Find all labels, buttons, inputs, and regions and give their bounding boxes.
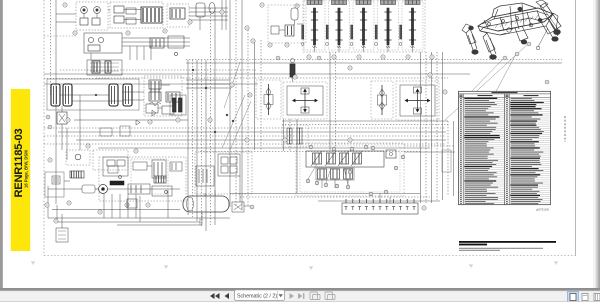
valve section S3 pilot spool (351, 25, 353, 39)
pump PL2 (75, 154, 81, 160)
schematic border frame bottom (44, 255, 576, 257)
wire (111, 194, 113, 218)
node (205, 87, 207, 89)
callout (250, 205, 254, 209)
wire (167, 190, 169, 218)
wire (241, 0, 243, 210)
main control valve bank enclosure (303, 0, 425, 52)
wire (48, 188, 82, 190)
valve VL5 (152, 186, 172, 196)
valve section S2 spool (338, 8, 340, 45)
gauge G2 (98, 37, 103, 42)
wire (56, 205, 58, 222)
aux valve AV1 actuator arrow (311, 151, 322, 166)
wire (204, 193, 206, 196)
manifold port (379, 199, 381, 203)
node (375, 43, 378, 46)
layout two-page button (594, 294, 600, 301)
callout (268, 43, 272, 47)
toolbar page dropdown (235, 290, 285, 301)
valve group enclosure V2 (110, 2, 163, 28)
valve section S1 enclosure (304, 1, 325, 50)
wire (44, 143, 446, 145)
callout (283, 138, 287, 142)
wire (230, 193, 420, 195)
wire (189, 15, 228, 17)
aux valve AV1 (313, 153, 322, 164)
valve VM1 (146, 104, 158, 113)
registration mark (309, 267, 313, 270)
wire (404, 151, 455, 153)
wire (240, 196, 430, 198)
schematic border frame left (43, 0, 45, 256)
callout (285, 43, 289, 47)
wire (453, 121, 455, 196)
valve VL8 (170, 162, 182, 171)
strainer ST1 (52, 176, 60, 184)
valve section S5 spring (411, 46, 415, 48)
orifice O2 (119, 176, 122, 179)
leader line (230, 101, 251, 150)
accumulator AC3 (109, 84, 118, 106)
machine illustration - loader frame isometric view (462, 0, 561, 59)
valve section S5 pilot spool (400, 25, 402, 39)
leader line (470, 54, 516, 140)
wire (199, 17, 201, 30)
wire (122, 99, 144, 101)
axle motor MT2 inner valve (414, 108, 422, 114)
valve VC2 (196, 166, 214, 186)
wire (247, 30, 249, 205)
valve section S3 spool (362, 8, 364, 45)
wire (58, 131, 446, 133)
schematic note text block (459, 241, 556, 251)
valve VC1 (218, 154, 240, 176)
aux valve AV2 (327, 153, 336, 164)
check valve V3 (114, 6, 124, 13)
steering metering unit MU1 metering spool (268, 84, 270, 115)
leader line (224, 62, 240, 108)
node (232, 120, 234, 122)
pilot manifold body (306, 151, 384, 167)
wire (127, 194, 129, 218)
wire (425, 52, 427, 203)
registration mark (31, 262, 35, 265)
callout (324, 183, 328, 187)
leader line (326, 168, 331, 183)
callout (317, 56, 321, 60)
valve VL2 (133, 162, 147, 170)
wire (186, 87, 230, 89)
wire (200, 151, 420, 153)
registration mark (469, 265, 473, 268)
callout (332, 147, 336, 151)
manifold port (365, 199, 367, 203)
callout (371, 146, 375, 150)
wire (225, 0, 227, 30)
node (214, 131, 216, 133)
node (301, 43, 304, 46)
accumulator group frame (47, 79, 139, 110)
axle motor MT2 enclosure (396, 81, 439, 120)
filter element F1b (105, 61, 111, 73)
wire (321, 179, 323, 188)
accumulator AC1 (51, 84, 60, 106)
wire (189, 11, 228, 13)
wire (363, 45, 365, 52)
wire (64, 180, 70, 182)
wire (239, 176, 241, 202)
manifold port (399, 199, 401, 203)
valve section S4 spool (387, 8, 389, 45)
wire (186, 79, 230, 81)
steering motor MT1 enclosure (283, 82, 327, 119)
valve CE2 spool B (297, 128, 302, 144)
valve VL3 (152, 160, 166, 178)
relief valve RV2 gauge (389, 152, 392, 155)
wire (76, 139, 446, 141)
callout (146, 203, 150, 207)
wire (50, 0, 52, 96)
callout (346, 185, 350, 189)
callout (176, 118, 180, 122)
valve section S3 top block (356, 0, 371, 5)
wire (338, 45, 340, 52)
callout (515, 52, 519, 56)
valve section S1 spool (313, 8, 315, 45)
valve section S4 enclosure (378, 1, 399, 50)
node (326, 43, 329, 46)
callout (163, 29, 167, 33)
aux valve AV4 (353, 153, 362, 164)
aux valve lower AVL1 (318, 169, 327, 179)
callout (86, 144, 90, 148)
wire (254, 40, 256, 150)
big system enclosure BL3 (99, 157, 186, 201)
wire (289, 119, 291, 151)
wire (279, 29, 285, 31)
valve VM2 (162, 106, 174, 114)
wire (57, 221, 200, 223)
toolbar print button (disabled) (325, 292, 335, 300)
valve CE2 spool A (287, 128, 292, 144)
callout (384, 190, 388, 194)
wire (199, 218, 201, 225)
lower valve row body (316, 168, 354, 180)
end cap block (442, 150, 451, 172)
steering motor MT1 cross port arrows (295, 100, 315, 102)
callout (293, 75, 297, 79)
callout (245, 138, 249, 142)
callout (369, 192, 373, 196)
valve section S2 pilot spool (326, 25, 328, 39)
wire (292, 77, 294, 82)
wire (201, 212, 203, 225)
wire (44, 73, 470, 75)
wire (61, 214, 63, 228)
valve section S5 top block (405, 0, 420, 5)
valve section S3 spring (362, 46, 366, 48)
component block CB1 (170, 95, 186, 115)
part number sticker (11, 89, 30, 251)
wire (61, 106, 63, 112)
wire (189, 7, 228, 9)
filter FL1 (56, 228, 68, 242)
node (350, 43, 353, 46)
callout (332, 55, 336, 59)
wire (161, 84, 170, 86)
callout (46, 115, 50, 119)
wire (297, 23, 303, 25)
aux valve AV2 actuator arrow (325, 151, 336, 166)
wire (122, 41, 190, 43)
pilot solenoid valve PS1 port (291, 59, 295, 63)
wire (107, 188, 180, 190)
pilot valve enclosure CBL1 (195, 152, 252, 194)
wire (420, 52, 422, 203)
wire (158, 107, 162, 109)
layout single-page button (active) (568, 292, 579, 302)
valve section S2 spring (337, 46, 341, 48)
callout (126, 31, 130, 35)
pump P1 (81, 7, 88, 14)
callout (295, 4, 299, 8)
callout (348, 138, 352, 142)
wire (47, 204, 49, 218)
wire (83, 14, 85, 19)
svg-text:16 Page, B/W, DSM: 16 Page, B/W, DSM (24, 150, 29, 188)
callout (251, 39, 255, 43)
wire (221, 0, 223, 30)
wire (214, 8, 216, 225)
valve CE1a (285, 25, 294, 36)
callout (357, 55, 361, 59)
callout (276, 56, 280, 60)
brake metering unit MU2 body (378, 95, 387, 105)
wire (129, 46, 131, 60)
valve section S2 enclosure (329, 1, 350, 50)
pilot valve V4 (170, 8, 185, 19)
aux valve AV3 (340, 153, 349, 164)
callout (364, 145, 368, 149)
callout (428, 73, 432, 77)
wire (61, 124, 63, 150)
wire (72, 100, 123, 102)
wire (186, 62, 562, 64)
callout (73, 31, 77, 35)
valve VC3 (232, 202, 244, 212)
callout (48, 125, 52, 129)
manifold port (372, 199, 374, 203)
check valve CV2 (152, 110, 156, 116)
valve section S4 top block (381, 0, 396, 5)
svg-text:Schematic (2 / 2): Schematic (2 / 2) (237, 293, 277, 299)
callout (245, 26, 249, 30)
wire (122, 45, 190, 47)
callout (348, 66, 352, 70)
pump P2 (94, 7, 101, 14)
wire (431, 52, 433, 203)
heat exchanger HX1 (70, 171, 84, 178)
callout (350, 147, 354, 151)
wire (318, 200, 440, 202)
callout (66, 118, 70, 122)
valve enclosure BL4 (131, 159, 168, 194)
wire (347, 179, 349, 188)
node (192, 69, 194, 71)
callout (527, 42, 531, 46)
leader line (445, 44, 528, 120)
valve section S3 enclosure (353, 1, 374, 50)
steering metering unit MU1 body (264, 95, 273, 105)
toolbar first-page button (210, 293, 220, 299)
wire (135, 194, 137, 218)
control valve enclosure CV1 (144, 76, 182, 116)
wire (74, 119, 188, 121)
wire (282, 124, 448, 126)
callout (248, 93, 252, 97)
pump enclosure PL1 (45, 172, 64, 197)
callout (503, 56, 507, 60)
toolbar next-page button (disabled) (290, 293, 295, 299)
small block SB2 (120, 126, 130, 136)
callout (54, 219, 58, 223)
wire (122, 91, 144, 93)
wire (282, 120, 448, 122)
valve section S4 pilot spool (375, 25, 377, 39)
orifice O1 (174, 52, 177, 55)
manifold port (406, 199, 408, 203)
leader line (222, 95, 245, 148)
pilot supply enclosure CE1 (268, 5, 306, 43)
callout (208, 118, 212, 122)
callout (45, 203, 49, 207)
accumulator AC2 (63, 84, 72, 106)
wire (235, 0, 237, 205)
axle motor MT2 cross port arrows (408, 100, 428, 102)
manifold port (352, 199, 354, 203)
axle motor MT2 body (400, 85, 435, 116)
wire (122, 37, 190, 39)
auxiliary valve group enclosure (296, 143, 404, 196)
enclosure BL2 (93, 150, 128, 170)
brake metering unit MU2 enclosure (371, 81, 393, 119)
callout (406, 55, 410, 59)
wire (387, 45, 389, 52)
solenoid S1 (166, 92, 180, 102)
callout (335, 184, 339, 188)
callout (220, 10, 224, 14)
callout (348, 170, 352, 174)
small valve VL6 (127, 199, 137, 208)
valve CE1b (271, 26, 279, 34)
wire (44, 35, 76, 37)
wire (379, 193, 381, 203)
valve VL7 (108, 166, 118, 173)
manifold port (359, 199, 361, 203)
leader line (463, 57, 505, 100)
leader line (308, 164, 317, 179)
valve V5 (88, 45, 100, 51)
valve section S4 spring (386, 46, 390, 48)
callout (148, 120, 152, 124)
wire (44, 135, 446, 137)
wire (201, 60, 203, 226)
wire (150, 46, 152, 60)
valve V9 (168, 36, 184, 48)
valve section S1 pilot spool (302, 25, 304, 39)
schematic components table (459, 91, 551, 204)
accumulator CE1c (291, 8, 298, 20)
valve V8 (150, 38, 164, 48)
callout (63, 3, 67, 7)
wire (329, 52, 331, 150)
callout (48, 158, 52, 162)
callout (381, 55, 385, 59)
wire (447, 121, 449, 196)
callout (125, 203, 129, 207)
wire (56, 13, 76, 15)
wire (442, 52, 444, 200)
callout (545, 80, 549, 84)
node (95, 94, 97, 96)
valve section S2 top block (332, 0, 347, 5)
pump PL3 (99, 185, 108, 194)
small block SB1 (100, 128, 112, 136)
callout (401, 155, 405, 159)
wire (196, 60, 198, 221)
wire (389, 197, 391, 203)
wire (124, 9, 141, 11)
wire (60, 94, 109, 96)
wire (47, 186, 49, 204)
tank T1 (183, 196, 229, 212)
leader line (344, 168, 348, 185)
wire (119, 194, 121, 218)
layout continuous button (582, 294, 588, 301)
wire (189, 19, 228, 21)
wire (44, 127, 446, 129)
aux valve AV4 actuator arrow (351, 151, 362, 166)
filter element F1a (92, 61, 100, 73)
manifold block M1 (84, 33, 122, 53)
motor ML1 (82, 185, 95, 193)
callout (230, 83, 234, 87)
callout (307, 55, 311, 59)
aux valve AV3 actuator arrow (338, 151, 349, 166)
wire (60, 69, 256, 71)
node (226, 114, 228, 116)
steering motor MT1 body (287, 86, 323, 115)
orifice O3 (165, 191, 168, 194)
manifold port (345, 199, 347, 203)
toolbar last-page button (disabled) (298, 293, 304, 299)
wire (335, 52, 337, 150)
wire (108, 9, 110, 11)
pressure reducing valve enclosure CE2 (282, 125, 308, 147)
manifold port (413, 199, 415, 203)
wire (55, 0, 57, 204)
steering metering unit MU1 enclosure (256, 80, 281, 119)
wire (244, 205, 250, 207)
shuttle valve SH1 (126, 8, 136, 14)
schematic border frame right (575, 0, 577, 256)
valve VL1 (103, 157, 128, 176)
gauge G1 (88, 37, 93, 42)
callout (260, 3, 264, 7)
wire (147, 165, 152, 167)
pump group enclosure P1 (76, 2, 108, 30)
